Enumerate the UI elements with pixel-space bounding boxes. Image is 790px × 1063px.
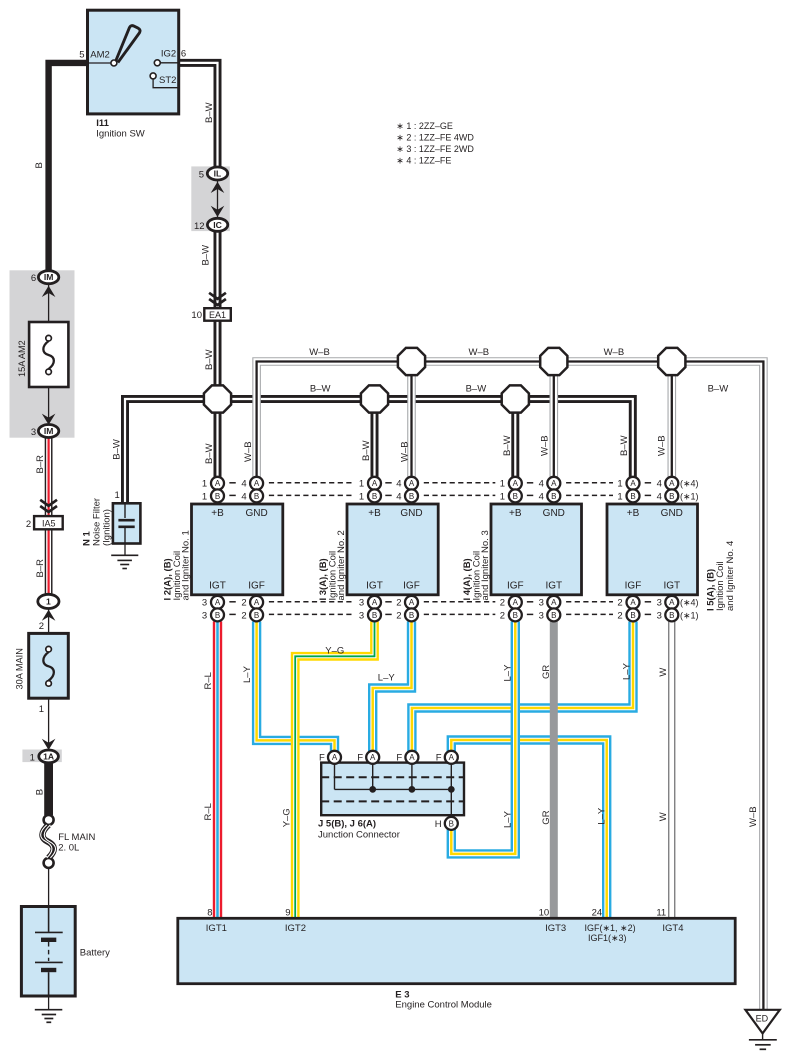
svg-text:(∗4): (∗4) <box>680 479 699 489</box>
svg-text:B–W: B–W <box>204 102 215 123</box>
svg-text:A: A <box>669 598 675 607</box>
svg-text:R–L: R–L <box>203 803 214 820</box>
svg-text:6: 6 <box>31 273 36 284</box>
svg-text:5: 5 <box>79 50 84 61</box>
wire B-R from connector IM to junction IA5 <box>45 437 53 516</box>
B-W bus wire from noise filter across to coil4 +B pin <box>125 399 633 503</box>
svg-text:A: A <box>254 479 260 488</box>
ignition switch I11 box <box>88 10 179 114</box>
svg-text:A: A <box>332 753 338 762</box>
svg-text:2: 2 <box>39 621 44 632</box>
contact IG2 <box>154 60 160 66</box>
thin wire from battery to ground <box>48 996 50 1010</box>
svg-text:5: 5 <box>199 170 204 181</box>
coil2 bottom pin 2 circles A/B <box>405 596 418 609</box>
svg-text:1A: 1A <box>43 751 54 761</box>
ignition switch movable blade contact <box>116 26 140 63</box>
wire L-Y from junction connector pin F4 to ECM pin 24 IGF <box>451 740 606 918</box>
svg-text:A: A <box>513 479 519 488</box>
svg-text:L–Y: L–Y <box>597 807 608 825</box>
svg-text:B: B <box>254 492 259 501</box>
capacitor symbol inside noise filter <box>118 503 134 543</box>
wire L-Y from coil1 IGF to junction connector pin F1 <box>257 622 335 758</box>
svg-text:B–W: B–W <box>502 435 513 456</box>
svg-text:EA1: EA1 <box>209 310 226 320</box>
svg-text:IGT1: IGT1 <box>206 923 227 934</box>
svg-text:A: A <box>409 753 415 762</box>
svg-text:L–Y: L–Y <box>378 673 396 684</box>
svg-text:L–Y: L–Y <box>503 664 514 682</box>
svg-text:B: B <box>513 492 518 501</box>
svg-text:1: 1 <box>39 704 44 715</box>
gray background box of fuse 15A AM2 <box>10 270 75 437</box>
svg-text:B–W: B–W <box>310 384 331 395</box>
svg-text:W–B: W–B <box>469 347 490 358</box>
svg-text:L–Y: L–Y <box>503 810 514 828</box>
wire L-Y from coil2 IGF to junction connector pin F2 <box>373 622 412 758</box>
svg-text:Y–G: Y–G <box>281 808 292 827</box>
svg-text:F: F <box>319 753 325 764</box>
svg-text:4: 4 <box>657 491 662 502</box>
svg-text:IGT: IGT <box>209 581 226 592</box>
svg-text:B–R: B–R <box>35 559 46 578</box>
svg-text:B–W: B–W <box>361 440 372 461</box>
svg-text:B: B <box>254 611 259 620</box>
svg-text:B: B <box>34 789 45 795</box>
thin wire through 15A AM2 fuse block <box>48 284 50 426</box>
junction connector internal dashed rails <box>321 777 464 801</box>
svg-text:1: 1 <box>30 752 35 763</box>
svg-text:A: A <box>409 598 415 607</box>
svg-text:B: B <box>630 611 635 620</box>
svg-text:F: F <box>357 753 363 764</box>
svg-text:(∗1): (∗1) <box>680 491 699 501</box>
fuse 15A AM2 body <box>29 322 68 387</box>
W-B branch wire down to coil3 GND pin <box>549 362 558 478</box>
svg-text:and Igniter No. 1: and Igniter No. 1 <box>181 530 192 600</box>
svg-text:A: A <box>669 479 675 488</box>
thin wire between connectors IL and IC <box>217 180 219 219</box>
ignition coil and igniter No.2 box I 3 <box>347 504 438 595</box>
svg-text:W–B: W–B <box>540 435 551 456</box>
svg-text:2: 2 <box>500 598 505 609</box>
ground point ED triangle <box>745 1010 779 1034</box>
W-B bus wire from coil1 GND up across to right side down to ED ground <box>257 362 764 1010</box>
B-W branch wire from bus down to coil1 +B pin <box>214 399 222 477</box>
svg-text:Ignition SW: Ignition SW <box>96 128 145 139</box>
coil1 top pin 4 circles A/B <box>250 477 263 490</box>
svg-text:∗ 2 : 1ZZ–FE 4WD: ∗ 2 : 1ZZ–FE 4WD <box>396 133 474 143</box>
coil1 bottom pin 2 circles A/B <box>250 596 263 609</box>
svg-text:IGF1(∗3): IGF1(∗3) <box>588 933 627 943</box>
svg-text:+B: +B <box>627 508 640 519</box>
svg-text:AM2: AM2 <box>90 50 110 61</box>
contact ST2 <box>150 73 156 79</box>
svg-text:A: A <box>372 598 378 607</box>
coil1 bottom pin 3 circles A/B <box>211 596 224 609</box>
svg-text:IGF: IGF <box>248 581 265 592</box>
svg-text:GND: GND <box>400 508 422 519</box>
connector 12 IC oval <box>207 218 227 231</box>
octagon node on B-W bus above coil3 <box>502 385 529 412</box>
svg-text:GR: GR <box>541 665 552 679</box>
svg-text:W–B: W–B <box>309 347 330 358</box>
svg-text:B: B <box>409 611 414 620</box>
junction connector pin F1 <box>328 751 341 764</box>
connector mate arrow below 6 IM <box>42 286 56 297</box>
svg-text:10: 10 <box>539 907 550 918</box>
octagon node on W-B bus above coil3 <box>540 348 567 375</box>
coil4 top pin 1 circles A/B <box>627 477 640 490</box>
svg-text:B–W: B–W <box>466 384 487 395</box>
svg-text:B–W: B–W <box>200 245 211 266</box>
coil2 bottom pin 3 circles A/B <box>368 596 381 609</box>
svg-text:IGF: IGF <box>403 581 420 592</box>
svg-text:1: 1 <box>617 491 622 502</box>
svg-text:IG2: IG2 <box>161 49 176 60</box>
svg-text:3: 3 <box>657 598 662 609</box>
wire B-R from junction IA5 to node 1 <box>45 529 53 594</box>
svg-text:3: 3 <box>359 610 364 621</box>
coil3 top pin 4 circles A/B <box>547 477 560 490</box>
svg-text:IGF: IGF <box>507 581 524 592</box>
coil3 bottom pin 2 circles A/B <box>509 596 522 609</box>
connector mate arrow below IL <box>211 182 225 193</box>
svg-text:IGT: IGT <box>366 581 383 592</box>
svg-text:(∗4): (∗4) <box>680 598 699 608</box>
svg-text:24: 24 <box>592 907 603 918</box>
svg-text:B: B <box>409 492 414 501</box>
svg-text:IL: IL <box>214 169 222 179</box>
svg-text:F: F <box>396 753 402 764</box>
svg-text:and Igniter No. 4: and Igniter No. 4 <box>725 541 736 611</box>
junction connector J5(B) J6(A) box <box>321 763 464 816</box>
svg-text:F: F <box>436 753 442 764</box>
svg-text:∗ 1 : 2ZZ–GE: ∗ 1 : 2ZZ–GE <box>396 121 453 131</box>
ignition coil and igniter No.3 box I 4 <box>491 504 582 595</box>
svg-text:2. 0L: 2. 0L <box>58 843 79 854</box>
svg-text:1: 1 <box>617 479 622 490</box>
dashed variant lines between coil pin rows <box>269 482 355 484</box>
svg-text:B–W: B–W <box>708 384 729 395</box>
ignition switch internal wire ST2 <box>153 79 179 88</box>
svg-text:A: A <box>551 479 557 488</box>
connector 3 IM oval <box>38 425 58 438</box>
svg-text:A: A <box>215 479 221 488</box>
battery cell symbol <box>35 907 63 997</box>
svg-text:W–B: W–B <box>748 806 759 827</box>
svg-text:A: A <box>215 598 221 607</box>
svg-text:4: 4 <box>657 479 662 490</box>
fuse 30A MAIN body <box>29 633 69 698</box>
svg-text:IGF: IGF <box>625 581 642 592</box>
engine control module E3 box <box>178 918 735 983</box>
svg-text:W–B: W–B <box>604 347 625 358</box>
svg-text:IGT: IGT <box>663 581 680 592</box>
junction connector pin F4 <box>445 751 458 764</box>
svg-text:FL MAIN: FL MAIN <box>58 832 95 843</box>
svg-text:B: B <box>551 492 556 501</box>
svg-text:Battery: Battery <box>80 947 110 958</box>
svg-text:Engine Control Module: Engine Control Module <box>395 1000 492 1011</box>
svg-text:∗ 3 : 1ZZ–FE 2WD: ∗ 3 : 1ZZ–FE 2WD <box>396 144 474 154</box>
svg-text:2: 2 <box>26 519 31 530</box>
svg-text:A: A <box>449 753 455 762</box>
svg-text:4: 4 <box>396 479 401 490</box>
connector 1 1A oval <box>39 750 59 763</box>
svg-text:H: H <box>435 819 442 830</box>
svg-text:3: 3 <box>202 598 207 609</box>
svg-text:IGT4: IGT4 <box>662 923 683 934</box>
svg-text:and Igniter No. 2: and Igniter No. 2 <box>336 530 347 600</box>
svg-text:GND: GND <box>661 508 683 519</box>
ground symbol below ED <box>749 1033 777 1049</box>
fusible link FL MAIN 2.0L <box>41 815 56 868</box>
svg-text:2: 2 <box>617 610 622 621</box>
svg-text:ED: ED <box>756 1014 769 1024</box>
ground symbol below noise filter <box>111 555 138 568</box>
svg-text:8: 8 <box>207 907 212 918</box>
wire L-Y from coil3 IGF to junction connector pin H <box>451 622 515 854</box>
ignition switch internal wire IG2 side <box>160 62 178 64</box>
svg-text:10: 10 <box>191 310 202 321</box>
svg-text:2: 2 <box>241 610 246 621</box>
svg-text:B–W: B–W <box>204 349 215 370</box>
svg-text:B: B <box>630 492 635 501</box>
coil2 top pin 4 circles A/B <box>405 477 418 490</box>
svg-text:W–B: W–B <box>657 435 668 456</box>
svg-text:3: 3 <box>657 610 662 621</box>
svg-text:+B: +B <box>368 508 381 519</box>
svg-text:30A MAIN: 30A MAIN <box>15 648 25 689</box>
svg-text:B: B <box>215 492 220 501</box>
wire R-L from coil1 IGT to ECM pin 8 IGT1 <box>213 622 222 919</box>
connector mate arrow below node 1 <box>42 610 56 621</box>
svg-text:1: 1 <box>359 479 364 490</box>
svg-text:4: 4 <box>396 491 401 502</box>
svg-text:Y–G: Y–G <box>325 645 344 656</box>
thin wire from FL MAIN to battery <box>48 868 50 907</box>
svg-text:J 5(B), J 6(A): J 5(B), J 6(A) <box>318 818 376 829</box>
junction block EA1 <box>204 308 231 321</box>
junction connector pin H <box>445 817 458 830</box>
svg-text:B: B <box>215 611 220 620</box>
junction block IA5 <box>34 516 63 529</box>
svg-text:1: 1 <box>115 490 120 501</box>
wire B from ignition switch AM2 down to connector IM <box>49 63 88 271</box>
svg-text:3: 3 <box>539 610 544 621</box>
svg-text:4: 4 <box>539 479 544 490</box>
svg-text:L–Y: L–Y <box>621 662 632 680</box>
svg-text:∗ 4 : 1ZZ–FE: ∗ 4 : 1ZZ–FE <box>396 156 451 166</box>
contact AM2 <box>111 60 117 66</box>
svg-text:B: B <box>669 492 674 501</box>
svg-text:1: 1 <box>46 596 51 606</box>
svg-text:(∗1): (∗1) <box>680 610 699 620</box>
svg-text:GND: GND <box>245 508 267 519</box>
ground symbol below battery <box>35 1010 63 1023</box>
svg-text:A: A <box>630 479 636 488</box>
ignition switch internal wire AM2 side <box>88 62 112 64</box>
svg-text:A: A <box>409 479 415 488</box>
octagon node on W-B bus above coil4 <box>658 348 685 375</box>
svg-text:and Igniter No. 3: and Igniter No. 3 <box>480 530 491 600</box>
connector mate arrow above 1A <box>42 739 56 750</box>
svg-text:+B: +B <box>509 508 522 519</box>
svg-text:IGT2: IGT2 <box>285 923 306 934</box>
octagon node on B-W bus above coil2 <box>361 385 388 412</box>
svg-text:GR: GR <box>541 810 552 824</box>
node 1 oval connector <box>38 594 59 608</box>
page chevron arrows on B-W wire above EA1 <box>209 293 226 305</box>
page chevron arrows on B-R wire <box>40 500 57 512</box>
svg-text:9: 9 <box>285 907 290 918</box>
svg-text:B: B <box>551 611 556 620</box>
svg-text:B–R: B–R <box>35 455 46 474</box>
svg-text:1: 1 <box>500 491 505 502</box>
svg-text:B–W: B–W <box>204 443 215 464</box>
octagon node on W-B bus above coil2 <box>398 348 425 375</box>
connector 5 IL oval <box>207 167 227 180</box>
ground wire below noise filter <box>124 544 126 556</box>
coil4 bottom pin 2 circles A/B <box>627 596 640 609</box>
svg-text:Junction Connector: Junction Connector <box>318 829 400 840</box>
svg-text:12: 12 <box>194 221 205 232</box>
svg-text:B: B <box>449 819 454 828</box>
svg-text:6: 6 <box>181 49 186 60</box>
svg-text:3: 3 <box>31 427 36 438</box>
coil4 bottom pin 3 circles A/B <box>665 596 678 609</box>
ignition coil and igniter No.1 box I 2 <box>192 504 283 595</box>
svg-text:4: 4 <box>539 491 544 502</box>
connector mate arrow above 3 IM <box>42 414 56 425</box>
coil4 top pin 4 circles A/B <box>665 477 678 490</box>
svg-text:1: 1 <box>202 491 207 502</box>
svg-text:A: A <box>370 753 376 762</box>
svg-text:4: 4 <box>241 479 246 490</box>
svg-text:R–L: R–L <box>203 672 214 689</box>
svg-text:A: A <box>254 598 260 607</box>
svg-text:1: 1 <box>500 479 505 490</box>
battery box <box>21 907 75 997</box>
svg-text:IGF(∗1, ∗2): IGF(∗1, ∗2) <box>585 923 636 933</box>
svg-text:A: A <box>513 598 519 607</box>
svg-text:A: A <box>372 479 378 488</box>
gray background box of connectors IL/IC <box>191 166 230 231</box>
svg-text:W: W <box>658 668 669 677</box>
svg-text:GND: GND <box>543 508 565 519</box>
svg-text:W–B: W–B <box>400 441 411 462</box>
gray background box of connector 1A <box>22 750 61 763</box>
svg-text:(Ignition): (Ignition) <box>102 509 113 546</box>
svg-text:3: 3 <box>202 610 207 621</box>
svg-text:W: W <box>658 812 669 821</box>
svg-text:1: 1 <box>202 479 207 490</box>
coil3 top pin 1 circles A/B <box>509 477 522 490</box>
coil1 top pin 1 circles A/B <box>211 477 224 490</box>
svg-text:IM: IM <box>44 426 54 436</box>
svg-text:IGT3: IGT3 <box>545 923 566 934</box>
W-B branch wire down to coil2 GND pin <box>407 362 416 478</box>
octagon node on B-W bus below EA1 <box>204 385 231 412</box>
svg-text:W–B: W–B <box>243 441 254 462</box>
svg-text:A: A <box>551 598 557 607</box>
junction connector pin F3 <box>405 751 418 764</box>
connector mate arrow above IC <box>211 206 225 217</box>
svg-text:+B: +B <box>211 508 224 519</box>
svg-text:4: 4 <box>241 491 246 502</box>
thin wire from node 1 through 30A MAIN fuse <box>48 608 50 750</box>
wire B-W from connector IC to junction EA1 <box>214 231 222 308</box>
B-W branch wire from bus down to coil3 +B pin <box>511 399 519 477</box>
wire W from coil4 IGT to ECM pin 11 IGT4 <box>668 622 675 919</box>
wire Y-G from coil2 IGT to ECM pin 9 IGT2 <box>295 622 374 919</box>
svg-text:2: 2 <box>396 610 401 621</box>
svg-text:IA5: IA5 <box>42 518 56 528</box>
svg-text:IGT: IGT <box>545 581 562 592</box>
wire GR from coil3 IGT to ECM pin 10 IGT3 <box>550 622 558 919</box>
svg-text:2: 2 <box>617 598 622 609</box>
wire L-Y from coil4 IGF to junction connector pin F3 <box>412 622 633 758</box>
svg-text:B: B <box>372 492 377 501</box>
ignition coil and igniter No.4 box I 5 <box>607 504 698 595</box>
svg-text:1: 1 <box>359 491 364 502</box>
svg-text:B: B <box>513 611 518 620</box>
svg-text:11: 11 <box>656 907 666 918</box>
svg-text:B–W: B–W <box>111 439 122 460</box>
svg-text:B: B <box>34 162 45 168</box>
coil2 top pin 1 circles A/B <box>368 477 381 490</box>
svg-text:B–W: B–W <box>619 435 630 456</box>
wire B-W from ignition switch IG2 down to connector IL <box>179 63 218 168</box>
svg-text:3: 3 <box>539 598 544 609</box>
B-W branch wire from bus down to coil2 +B pin <box>371 399 379 477</box>
junction connector internal bus line <box>335 757 454 823</box>
W-B branch wire down to coil4 GND pin <box>667 362 676 478</box>
noise filter N1 box <box>113 503 140 543</box>
connector 6 IM oval <box>38 271 58 284</box>
svg-text:A: A <box>630 598 636 607</box>
junction connector pin F2 <box>366 751 379 764</box>
coil3 bottom pin 3 circles A/B <box>547 596 560 609</box>
svg-text:ST2: ST2 <box>159 75 176 86</box>
wire B from connector 1A to fusible link FL MAIN <box>44 763 53 815</box>
svg-text:2: 2 <box>241 598 246 609</box>
wire B-W from junction EA1 to B-W bus octagon node <box>214 321 222 400</box>
svg-text:3: 3 <box>359 598 364 609</box>
svg-text:IM: IM <box>44 272 54 282</box>
svg-text:2: 2 <box>500 610 505 621</box>
svg-text:B: B <box>669 611 674 620</box>
svg-text:2: 2 <box>396 598 401 609</box>
svg-text:15A AM2: 15A AM2 <box>17 340 27 377</box>
svg-text:IC: IC <box>213 220 222 230</box>
svg-text:B: B <box>372 611 377 620</box>
svg-text:L–Y: L–Y <box>242 665 253 683</box>
